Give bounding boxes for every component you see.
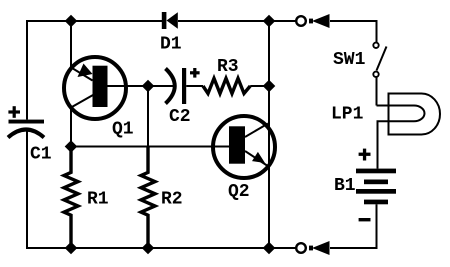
- svg-text:LP1: LP1: [331, 105, 364, 125]
- terminal top arrow: [309, 14, 330, 28]
- wire C2 to R3: [186, 85, 203, 87]
- capacitor C2: [166, 68, 200, 104]
- node bottom-right junction: [263, 242, 276, 255]
- wire bottom rail and left branch lower: [27, 132, 296, 249]
- wire top arrow tail to right branch: [330, 21, 377, 42]
- wire top rail left: [27, 21, 162, 120]
- svg-text:B1: B1: [334, 176, 356, 196]
- wire R2 vertical upper: [147, 86, 149, 173]
- wire R3 to right mid vertical: [250, 85, 269, 87]
- node top-right junction: [263, 15, 276, 28]
- wire Q1 base lead: [107, 85, 148, 87]
- capacitor C1: [8, 106, 44, 137]
- terminal bottom circle: [296, 243, 306, 253]
- svg-text:Q1: Q1: [112, 120, 134, 140]
- wire battery to bottom arrow: [330, 204, 377, 248]
- resistor R2: [141, 147, 155, 249]
- svg-text:Q2: Q2: [228, 182, 250, 202]
- node bottom R2 junction: [142, 242, 155, 255]
- wire switch to lamp: [376, 77, 378, 105]
- svg-text:R2: R2: [161, 190, 183, 210]
- svg-text:R1: R1: [87, 190, 109, 210]
- transistor Q1: [64, 57, 126, 119]
- wire right mid vertical full: [268, 21, 270, 248]
- svg-text:SW1: SW1: [333, 50, 366, 70]
- wire Q1 collector to R1 junction: [71, 95, 93, 146]
- battery B1: [356, 149, 396, 222]
- terminal bottom arrow: [309, 241, 330, 255]
- wire top rail mid: [178, 20, 296, 22]
- terminal top circle: [296, 16, 306, 26]
- diode D1: [162, 12, 178, 29]
- wire left mid vertical upper (top junction to Q1): [70, 21, 72, 68]
- node R3-right junction: [263, 80, 276, 93]
- resistor R1: [64, 146, 78, 248]
- node top-left junction: [65, 15, 78, 28]
- svg-text:C1: C1: [30, 145, 52, 165]
- svg-text:C2: C2: [169, 107, 191, 127]
- resistor R3: [203, 78, 250, 93]
- node C2-R2 junction: [142, 80, 155, 93]
- node Q1-R1 junction: [65, 140, 78, 153]
- wire Q2 base line: [71, 146, 229, 148]
- transistor Q2: [213, 116, 275, 178]
- svg-text:D1: D1: [160, 35, 182, 55]
- wire lamp filament and lead down to battery: [377, 106, 425, 169]
- node bottom R1 junction: [65, 242, 78, 255]
- wire junction to C2: [148, 85, 174, 87]
- lamp LP1: [389, 94, 441, 135]
- switch SW1: [373, 43, 386, 77]
- svg-text:R3: R3: [217, 57, 239, 77]
